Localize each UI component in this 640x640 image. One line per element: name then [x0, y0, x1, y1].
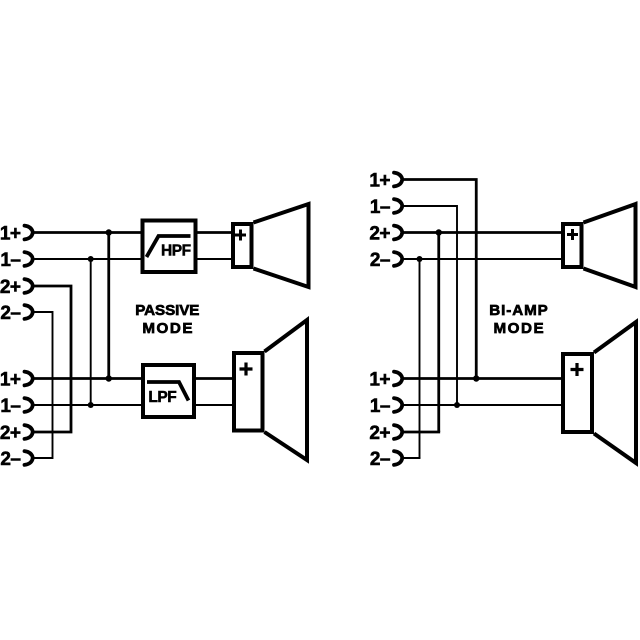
tweeter horn (passive): [254, 204, 309, 287]
terminal jack 1+ (biamp top): [394, 173, 402, 187]
svg-text:BI-AMP: BI-AMP: [489, 302, 548, 319]
HPF filter box: [143, 221, 196, 273]
LPF filter box: [143, 365, 194, 417]
wire 2+ bottom stub (biamp): [403, 431, 440, 434]
terminal jack 1+ (biamp bottom): [394, 372, 402, 386]
svg-text:1+: 1+: [369, 370, 390, 391]
terminal jack 1- (passive top): [25, 252, 33, 266]
terminal jack 2- (biamp bottom): [394, 451, 402, 465]
HPF response curve: [147, 236, 191, 257]
svg-text:1+: 1+: [0, 370, 21, 391]
svg-text:1+: 1+: [369, 171, 390, 192]
wire 2+ passive loop: [33, 286, 71, 432]
tweeter driver box (passive): [233, 224, 252, 267]
svg-text:2–: 2–: [370, 449, 390, 470]
svg-text:MODE: MODE: [142, 320, 194, 337]
svg-text:2+: 2+: [0, 423, 21, 444]
LPF response curve: [147, 382, 189, 401]
terminal jack 1- (biamp bottom): [394, 398, 402, 412]
svg-text:MODE: MODE: [494, 320, 546, 337]
wire 2- bottom stub (biamp): [403, 457, 420, 459]
svg-text:1–: 1–: [370, 197, 390, 218]
svg-text:2+: 2+: [369, 224, 390, 245]
wire vertical 2+ link (biamp): [437, 233, 440, 433]
wire LPF to woofer -: [194, 404, 234, 406]
junction node 2+ (biamp): [436, 229, 442, 235]
wire 2- to tweeter (biamp): [403, 258, 563, 260]
woofer horn (passive): [265, 320, 308, 460]
wire vertical 1- link: [90, 259, 92, 405]
junction node 1- top: [88, 256, 94, 262]
wire 1- to woofer (biamp): [403, 404, 563, 406]
wire HPF to tweeter +: [196, 231, 234, 234]
wire 1- bottom to LPF: [33, 404, 143, 406]
wire 1+ top to HPF: [33, 231, 143, 234]
svg-text:PASSIVE: PASSIVE: [135, 302, 199, 319]
wire vertical 1+ link: [107, 233, 110, 379]
woofer driver box (biamp): [563, 354, 592, 432]
terminal jack 1+ (passive bottom): [25, 372, 33, 386]
wire 1+ bottom to LPF: [33, 377, 143, 380]
terminal jack 1- (passive bottom): [25, 398, 33, 412]
junction node 1+ bottom: [106, 375, 112, 381]
svg-text:1–: 1–: [0, 396, 20, 417]
svg-text:2+: 2+: [0, 277, 21, 298]
svg-text:2–: 2–: [370, 250, 390, 271]
svg-text:2–: 2–: [0, 449, 20, 470]
wire 2+ to tweeter (biamp): [403, 231, 563, 234]
svg-text:1–: 1–: [0, 250, 20, 271]
terminal jack 2- (biamp top): [394, 252, 402, 266]
junction node 1+ bottom (biamp): [473, 375, 479, 381]
woofer plus mark (biamp): [571, 363, 584, 376]
junction node 1- bottom (biamp): [454, 402, 460, 408]
svg-text:LPF: LPF: [148, 389, 176, 406]
terminal jack 2+ (passive bottom): [25, 425, 33, 439]
terminal jack 2+ (biamp top): [394, 226, 402, 240]
junction node 1+ top: [106, 229, 112, 235]
wire HPF to tweeter -: [196, 258, 234, 260]
tweeter driver box (biamp): [563, 224, 582, 267]
terminal jack 2+ (biamp bottom): [394, 425, 402, 439]
wire 2- passive loop: [33, 312, 53, 458]
svg-text:2+: 2+: [369, 423, 390, 444]
terminal jack 1- (biamp top): [394, 199, 402, 213]
woofer driver box (passive): [234, 353, 263, 431]
junction node 1- bottom: [88, 402, 94, 408]
terminal jack 2- (passive top): [25, 305, 33, 319]
woofer horn (biamp): [594, 322, 636, 463]
wire 1+ biamp link: [403, 180, 476, 379]
wire 1- biamp link: [403, 206, 457, 405]
tweeter plus mark (passive): [235, 230, 246, 241]
svg-text:2–: 2–: [0, 303, 20, 324]
svg-text:1–: 1–: [370, 396, 390, 417]
wire vertical 2- link (biamp): [419, 259, 421, 458]
tweeter plus mark (biamp): [567, 229, 578, 240]
tweeter horn (biamp): [584, 204, 636, 287]
terminal jack 2+ (passive top): [25, 279, 33, 293]
wire LPF to woofer +: [194, 377, 234, 380]
wire 1+ to woofer (biamp): [403, 377, 563, 380]
woofer plus mark (passive): [240, 363, 253, 376]
junction node 2- (biamp): [417, 256, 423, 262]
terminal jack 1+ (passive top): [25, 226, 33, 240]
terminal jack 2- (passive bottom): [25, 451, 33, 465]
wire 1- top to HPF: [33, 258, 143, 260]
svg-text:1+: 1+: [0, 224, 21, 245]
svg-text:HPF: HPF: [161, 243, 191, 260]
